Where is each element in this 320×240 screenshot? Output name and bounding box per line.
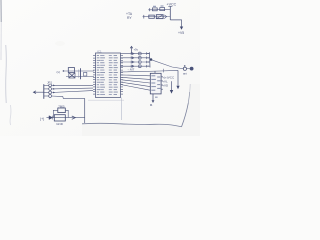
wire driver bottom branch bbox=[143, 16, 171, 18]
crystal X1 bbox=[80, 68, 82, 79]
LED D4 bbox=[130, 65, 132, 68]
transistor Q1 bbox=[156, 15, 163, 19]
junction dot bbox=[63, 70, 64, 71]
paper corner shading bbox=[82, 84, 200, 136]
IC U2 right pin stubs bbox=[161, 77, 163, 89]
junction box bbox=[84, 72, 87, 76]
wire to ground arrow bbox=[170, 20, 181, 27]
LED row 3 bbox=[121, 61, 150, 63]
wire pin1 to U1 bbox=[52, 84, 94, 86]
wire pin4 down bbox=[52, 96, 85, 98]
label above R1 bbox=[153, 6, 156, 7]
capacitor C1 bbox=[68, 68, 74, 73]
svg-text:+V5: +V5 bbox=[178, 31, 184, 35]
connector pin 2 bbox=[44, 88, 49, 90]
IC U1 right pin stubs bbox=[121, 56, 124, 94]
connector pin 4 bbox=[44, 95, 49, 97]
connector pin 3 bbox=[44, 92, 49, 94]
wire vertical right B bbox=[177, 70, 179, 85]
svg-text:M.: M. bbox=[150, 103, 153, 107]
wire power row bbox=[47, 117, 85, 119]
svg-text:IC1: IC1 bbox=[97, 49, 102, 53]
IC U2 inner text bbox=[151, 75, 160, 90]
svg-text:+VD: +VD bbox=[162, 83, 169, 87]
wire left tick top branch bbox=[149, 8, 151, 11]
svg-text:(+): (+) bbox=[40, 117, 44, 121]
label pin note bbox=[155, 97, 158, 98]
svg-text:(x): (x) bbox=[57, 70, 61, 74]
wire driver top branch bbox=[148, 9, 170, 11]
resistor R4 top box bbox=[58, 108, 66, 113]
svg-text:+VCC: +VCC bbox=[167, 3, 177, 7]
wire top box hooks bbox=[53, 110, 68, 117]
wire IC bottom right down bbox=[121, 98, 123, 121]
resistor R3 bbox=[149, 15, 155, 18]
regulator box bbox=[54, 115, 65, 121]
LED D2 bbox=[130, 56, 132, 59]
diode D5 bbox=[49, 116, 52, 120]
ground arrow under U2 bbox=[152, 94, 154, 100]
wire diagonal rail to terminal bbox=[152, 60, 184, 69]
ground arrow B bbox=[176, 86, 179, 89]
LED row 1 bbox=[121, 53, 150, 55]
wire crystal bottom bbox=[66, 76, 94, 78]
label above R2 bbox=[161, 6, 164, 7]
IC U1 left pin stubs bbox=[93, 56, 96, 94]
faint smudge bbox=[55, 41, 65, 46]
svg-text:ant: ant bbox=[183, 72, 187, 76]
LED D1 bbox=[130, 52, 132, 55]
wire left tick bottom branch bbox=[143, 15, 145, 19]
antenna terminal blob bbox=[190, 67, 194, 71]
wire vertical to paper edge bbox=[84, 98, 86, 123]
LED row 2 bbox=[121, 57, 150, 59]
svg-text:RY: RY bbox=[127, 16, 132, 20]
connector pin 1 bbox=[44, 84, 49, 86]
resistor R1 bbox=[152, 8, 157, 11]
resistor R2 bbox=[160, 8, 165, 11]
left edge dark sliver bbox=[0, 0, 2, 22]
ground arrow A bbox=[170, 90, 173, 94]
wire vertical right A bbox=[171, 81, 173, 90]
capacitor C2 crossed bbox=[69, 73, 75, 78]
LED D3 bbox=[130, 61, 132, 64]
IC U1 (MCU) body bbox=[96, 53, 121, 98]
wire antenna line bbox=[121, 70, 179, 72]
junction dot bbox=[150, 58, 153, 61]
IC U2 body bbox=[150, 73, 161, 94]
paper right edge bbox=[182, 103, 189, 127]
arrow on wire bbox=[72, 116, 76, 119]
wire pin3 to U1 bbox=[52, 91, 94, 93]
faint line under U1 bbox=[88, 99, 124, 101]
svg-text:GND: GND bbox=[56, 122, 64, 126]
svg-text:→MT: →MT bbox=[127, 68, 134, 72]
antenna terminal + bbox=[183, 67, 186, 70]
svg-text:+5v: +5v bbox=[134, 47, 139, 51]
connector J1 arrow bbox=[33, 91, 43, 94]
LED row 4 bbox=[121, 65, 150, 67]
wire tick on antenna line bbox=[163, 69, 165, 73]
wire U2 top pin bbox=[154, 71, 156, 73]
IC U1 inner pin text rows bbox=[97, 55, 118, 95]
wire crystal top bbox=[63, 70, 95, 72]
LED rail up arrow bbox=[130, 46, 133, 53]
faint squiggle bottom left bbox=[9, 105, 12, 125]
paper bottom edge bbox=[82, 123, 182, 127]
wire pin2 to U1 bbox=[52, 87, 94, 90]
faint left margin line bbox=[5, 45, 8, 103]
LED row end bars bbox=[145, 52, 147, 55]
connector J1 bar bbox=[43, 84, 45, 99]
ground arrow bbox=[180, 27, 183, 30]
LED rail bbox=[149, 52, 152, 67]
wires U1 to U2 bbox=[121, 74, 151, 77]
wire +VCC rail bbox=[169, 6, 171, 20]
